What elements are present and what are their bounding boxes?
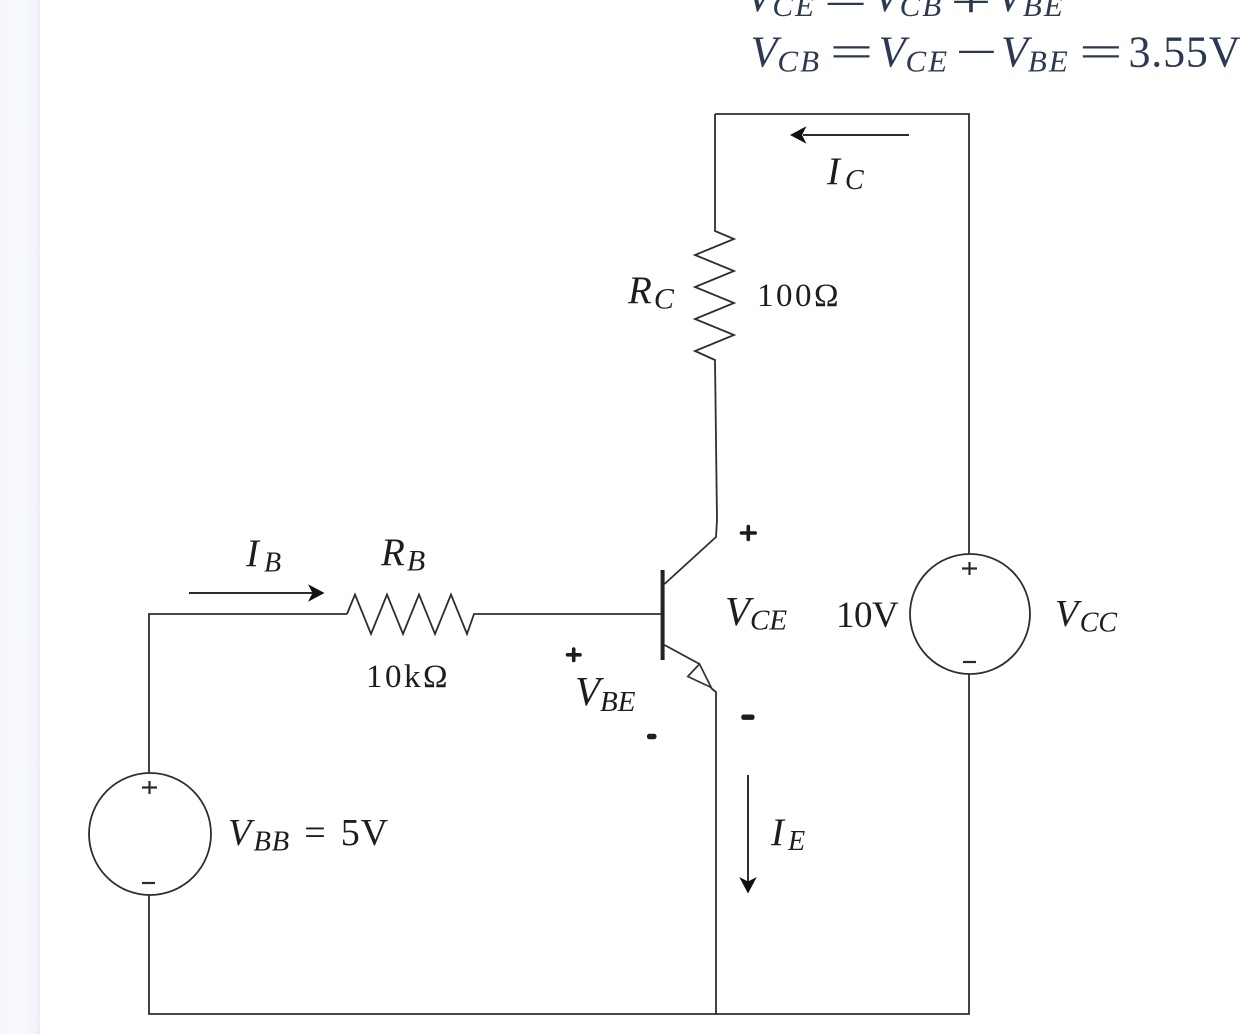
svg-text:VBB = 5V: VBB = 5V <box>228 812 389 858</box>
svg-text:RC: RC <box>627 269 675 316</box>
svg-text:VCB: VCB <box>873 0 944 23</box>
svg-text:−: − <box>956 28 998 77</box>
svg-text:=: = <box>830 27 874 76</box>
svg-text:10kΩ: 10kΩ <box>366 659 450 695</box>
svg-text:=: = <box>1079 27 1123 76</box>
svg-text:VCE: VCE <box>879 28 950 79</box>
svg-text:IC: IC <box>826 150 864 196</box>
svg-text:+: + <box>951 0 992 26</box>
svg-text:100Ω: 100Ω <box>757 278 841 314</box>
svg-text:IB: IB <box>245 532 281 579</box>
svg-text:VCE: VCE <box>746 0 817 23</box>
svg-text:VCE: VCE <box>725 588 787 637</box>
svg-text:=: = <box>824 0 868 24</box>
svg-text:VBE: VBE <box>1001 28 1070 79</box>
svg-text:IE: IE <box>770 811 805 857</box>
svg-text:RB: RB <box>380 531 425 578</box>
svg-text:3.55V: 3.55V <box>1129 28 1242 77</box>
svg-text:VCB: VCB <box>751 28 822 79</box>
svg-text:VCC: VCC <box>1055 593 1117 639</box>
svg-text:VBE: VBE <box>996 0 1065 23</box>
svg-text:VBE: VBE <box>575 668 636 718</box>
svg-text:10V: 10V <box>836 595 899 636</box>
